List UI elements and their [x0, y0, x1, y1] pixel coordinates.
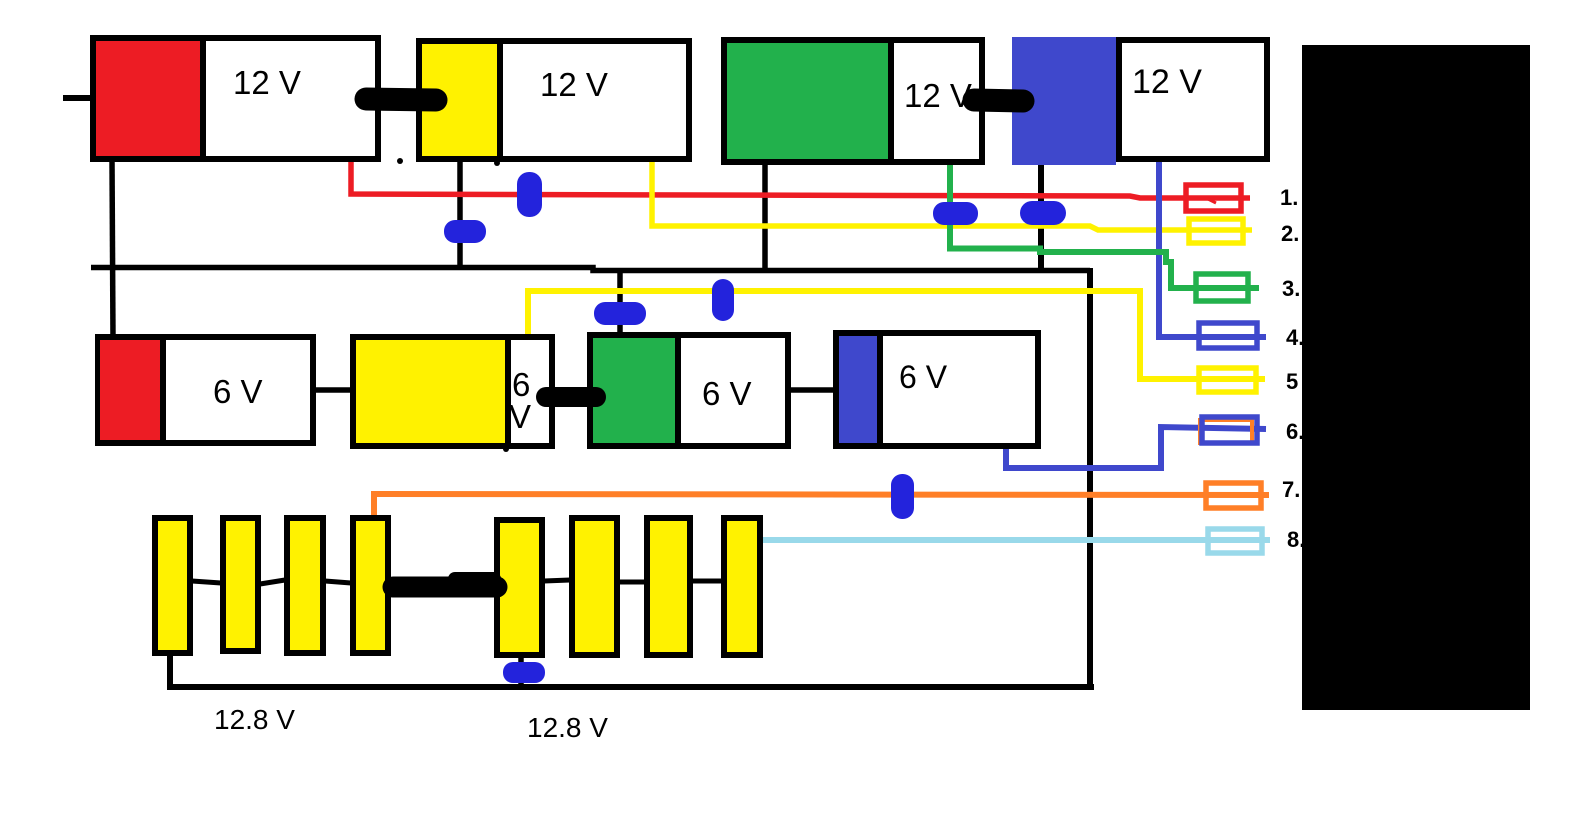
connector battery1-battery2 — [366, 99, 436, 100]
battery B5 divider — [160, 337, 166, 443]
svg-text:6.: 6. — [1286, 419, 1304, 444]
fuse F3 green — [1196, 274, 1248, 301]
battery B8 divider — [877, 333, 883, 446]
connector cell4-cell5 — [393, 577, 497, 598]
svg-text:12 V: 12 V — [233, 64, 301, 101]
wire battery2 to bus vertical — [457, 160, 463, 270]
junction blob on orange wire — [891, 474, 914, 519]
cell C4 — [353, 518, 388, 653]
wire cell3-cell4 link — [325, 581, 351, 583]
battery B6 6V outer box — [353, 337, 552, 446]
svg-text:3.: 3. — [1282, 276, 1300, 301]
wire red battery1 to fuse1 — [351, 156, 1250, 198]
svg-text:12 V: 12 V — [540, 66, 608, 103]
junction blob on red wire — [517, 172, 542, 217]
connector cell4-cell5 upper stroke — [455, 572, 494, 586]
svg-text:6 V: 6 V — [899, 359, 948, 395]
battery B6 divider — [505, 337, 511, 446]
svg-text:4.: 4. — [1286, 325, 1304, 350]
battery B2 divider — [497, 41, 503, 159]
battery B4 blue cell fill — [1012, 37, 1116, 165]
svg-text:V: V — [509, 398, 531, 435]
fuse F6 orange ghost — [1200, 420, 1252, 443]
battery B5 6V outer box — [98, 337, 313, 443]
wire green battery3 to fuse3 — [950, 163, 1259, 288]
cell C7 — [647, 518, 690, 655]
cell C3 — [287, 518, 323, 653]
cell C1 — [155, 518, 190, 653]
battery B7 divider — [675, 335, 681, 446]
wire battery7-battery8 link — [788, 387, 836, 393]
dot battery6 divider foot — [503, 446, 509, 452]
battery B3 12V outer box — [724, 40, 982, 162]
wire cell1 bottom stub — [167, 654, 173, 689]
wire orange cell4 to fuse7 — [374, 494, 1269, 518]
wire battery1 to battery5 vertical — [112, 160, 113, 338]
fuse F1 squiggle — [1206, 198, 1216, 203]
wire cell2-cell3 link — [260, 580, 285, 584]
dot battery2 corner — [494, 160, 500, 166]
cell C6 — [572, 518, 617, 655]
svg-text:12 V: 12 V — [904, 77, 972, 114]
battery B1 red cell fill — [96, 41, 202, 156]
battery B3 green cell fill — [727, 43, 888, 159]
svg-text:6 V: 6 V — [702, 375, 752, 412]
fuse F2 yellow — [1189, 219, 1243, 243]
battery B3 divider — [888, 40, 894, 162]
wire bus right vertical — [1087, 268, 1093, 690]
black panel rectangle — [1302, 45, 1530, 710]
wire yellow battery6 to fuse5 — [528, 291, 1265, 379]
wire battery3 to bus vertical — [762, 163, 768, 270]
wire cell5 bottom stub — [518, 656, 524, 689]
wire blue battery8 to fuse6 — [1006, 427, 1266, 468]
battery B2 yellow cell fill — [422, 44, 497, 156]
wire yellow battery2 to fuse2 — [652, 160, 1252, 230]
wire cell7-cell8 link — [692, 579, 722, 584]
junction blob on cell5 stub — [503, 662, 545, 683]
wire cell5-cell6 link — [544, 580, 570, 581]
junction blob on battery4 bus wire — [1020, 201, 1066, 225]
svg-text:1.: 1. — [1280, 185, 1298, 210]
fuse F5 yellow — [1199, 368, 1256, 392]
junction blob on battery7 bus wire — [594, 302, 646, 325]
junction blob on yellow wire — [712, 279, 734, 321]
svg-text:12.8 V: 12.8 V — [527, 712, 608, 743]
battery B6 yellow cell fill — [356, 340, 505, 443]
junction blob on battery2 bus wire — [444, 220, 486, 243]
fuse F1 red — [1186, 185, 1241, 211]
svg-text:7.: 7. — [1282, 477, 1300, 502]
battery B2 12V outer box — [419, 41, 689, 159]
cell C2 — [223, 518, 258, 651]
wire battery4 to bus vertical — [1038, 160, 1044, 270]
connector battery3-battery4 — [974, 100, 1023, 101]
cell C8 — [724, 518, 760, 655]
svg-text:2.: 2. — [1281, 221, 1299, 246]
cell C5 — [497, 520, 542, 655]
battery B7 6V outer box — [590, 335, 788, 446]
fuse F7 orange — [1206, 483, 1261, 508]
fuse F4 blue — [1199, 323, 1257, 348]
wire bus horizontal — [91, 268, 1090, 271]
wire bus to battery7 vertical — [617, 268, 623, 334]
svg-text:12.8 V: 12.8 V — [214, 704, 295, 735]
fuse F8 lightblue — [1208, 529, 1262, 553]
battery B4 outer box — [1119, 40, 1267, 159]
svg-text:5: 5 — [1286, 369, 1298, 394]
fuse F6 blue — [1202, 417, 1257, 443]
battery B8 blue cell fill — [839, 336, 877, 443]
wire blue battery4 to fuse4 — [1159, 160, 1266, 337]
battery B8 6V outer box — [836, 333, 1038, 446]
battery B7 green cell fill — [593, 338, 675, 443]
junction blob on green wire — [933, 202, 978, 225]
battery B5 red cell fill — [100, 340, 160, 440]
battery B1 12V outer box — [93, 38, 378, 159]
dot battery1 divider foot — [397, 158, 403, 164]
wire battery1 left terminal stub — [63, 95, 91, 101]
wire battery5-battery6 link — [313, 387, 352, 393]
svg-text:12 V: 12 V — [1132, 63, 1202, 101]
wire cell1-cell2 link — [192, 581, 221, 583]
battery B1 divider — [200, 38, 206, 159]
wire cell6-cell7 link — [619, 580, 645, 585]
connector battery6-battery7 — [546, 387, 596, 407]
wire lightblue cell8 to fuse8 — [763, 537, 1270, 543]
svg-text:6 V: 6 V — [213, 373, 263, 410]
wire bottom bus horizontal — [167, 684, 1094, 690]
